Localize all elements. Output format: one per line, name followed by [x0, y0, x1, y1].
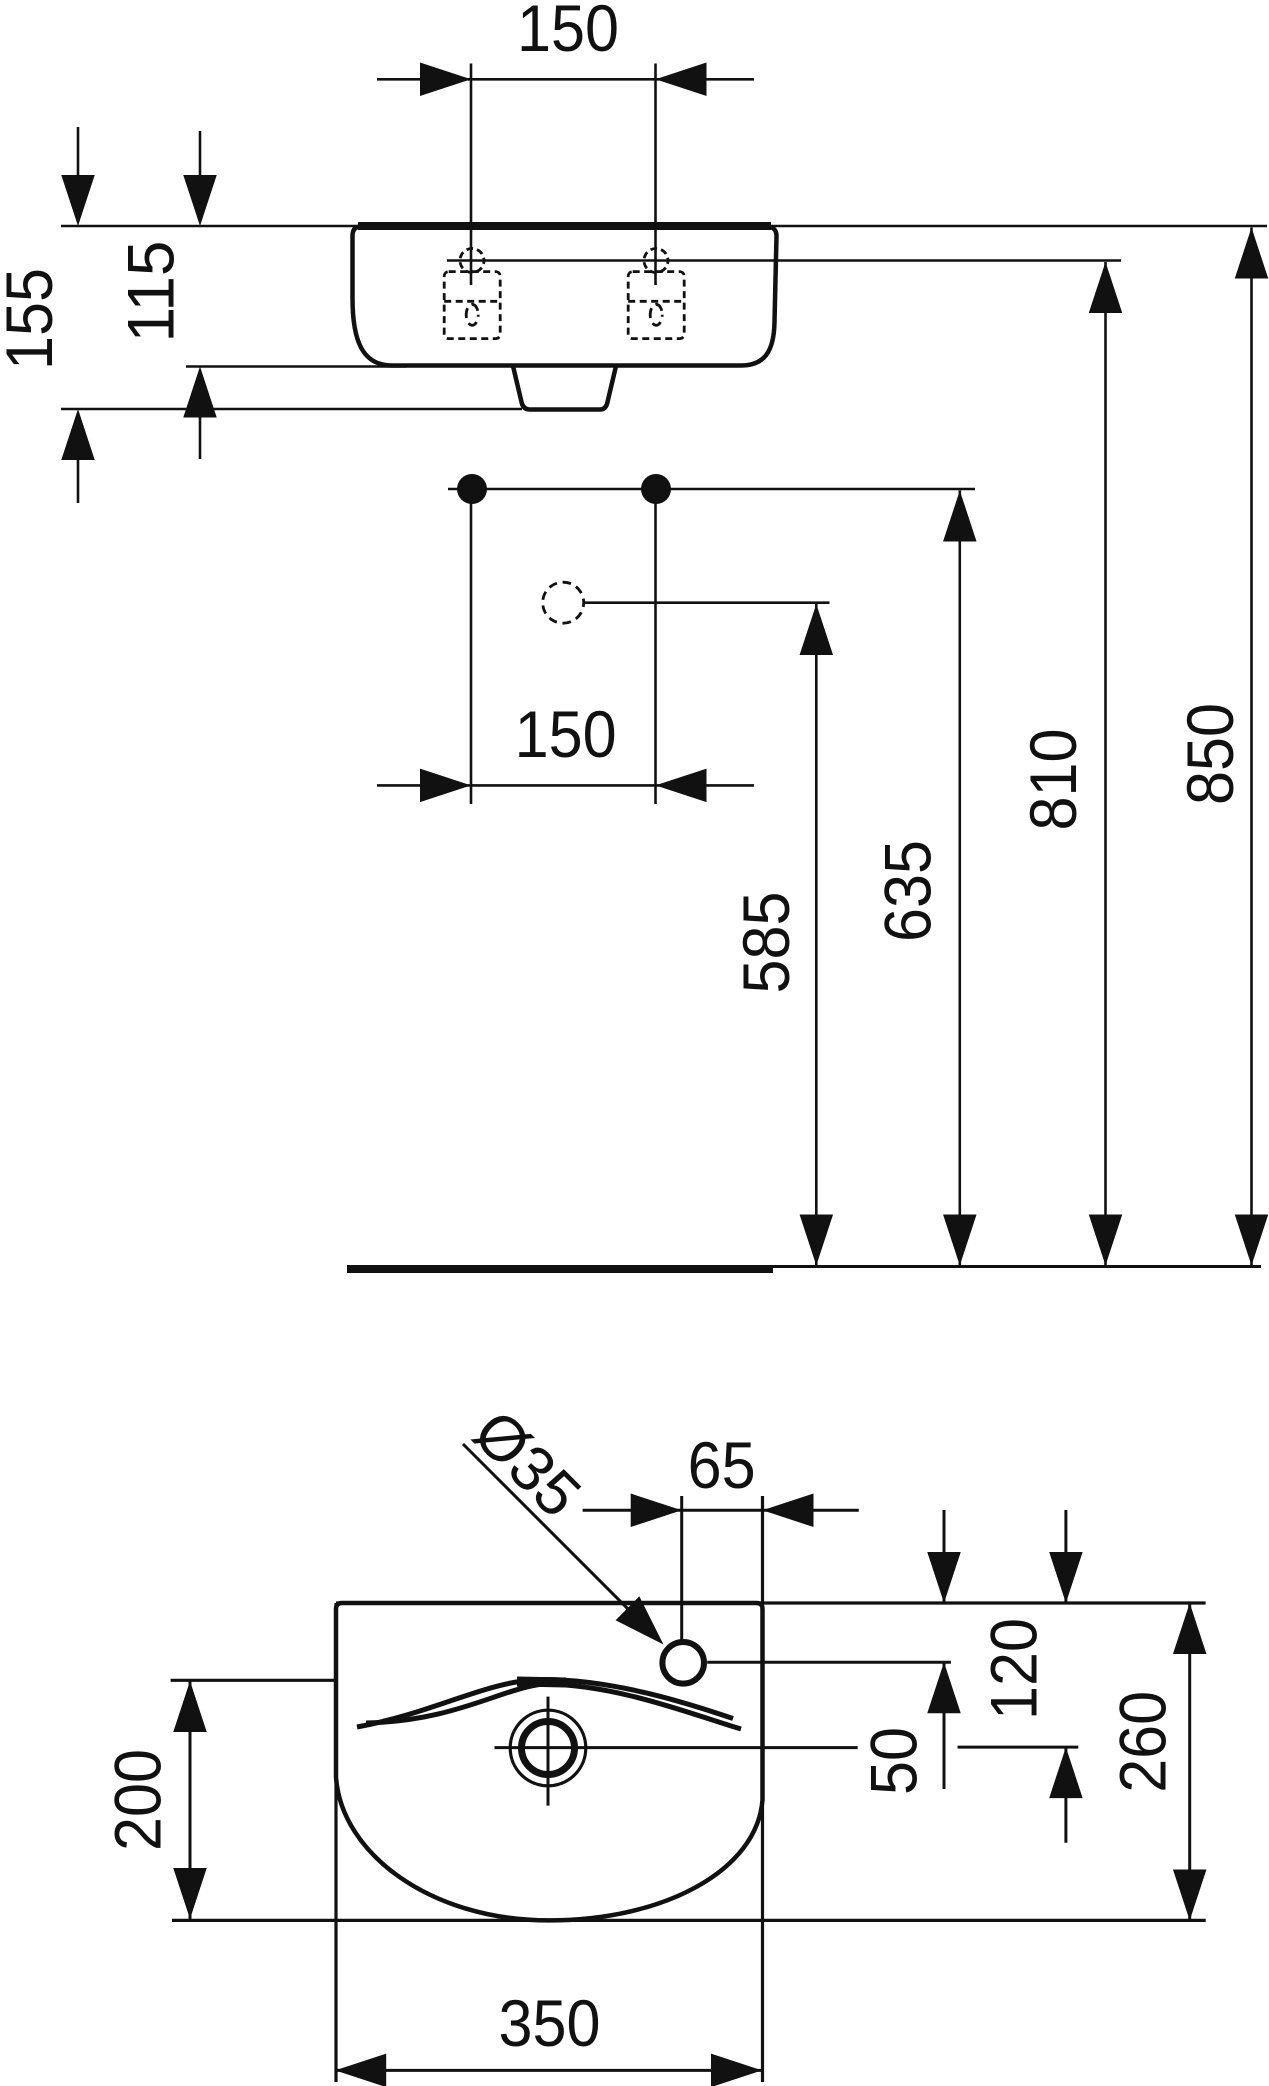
drain crosshair vertical — [547, 1697, 550, 1806]
svg-text:850: 850 — [1173, 703, 1247, 805]
leader line O35 — [463, 1444, 640, 1621]
dim 350 — [335, 2069, 762, 2072]
plan bottom reference line — [172, 1919, 1206, 1922]
dim 150 mid arrow right — [656, 769, 707, 803]
bowl rim wave upper — [357, 1680, 733, 1728]
svg-text:200: 200 — [101, 1749, 175, 1851]
plan left extension — [334, 1603, 337, 2082]
drain crosshair horizontal — [495, 1746, 858, 1749]
bolt hole circle left — [460, 249, 484, 273]
svg-text:115: 115 — [113, 241, 187, 343]
fixing dot extension left — [470, 489, 473, 804]
svg-text:120: 120 — [977, 1618, 1051, 1720]
leader arrowhead — [616, 1596, 664, 1644]
dim 200 — [189, 1681, 192, 1919]
fixing dot right — [641, 474, 671, 504]
plan right extension — [761, 1496, 764, 2082]
svg-text:810: 810 — [1016, 729, 1090, 831]
floor line thin — [347, 1265, 1261, 1268]
svg-text:65: 65 — [688, 1428, 756, 1502]
bolt hole circle right — [644, 249, 668, 273]
svg-text:150: 150 — [517, 0, 619, 65]
extension line 115 bottom — [186, 365, 406, 368]
tap hole extension horizontal — [707, 1661, 951, 1664]
dim 635 — [958, 491, 961, 1266]
dim 65 arrow left — [631, 1494, 682, 1528]
bolt centerline right — [654, 64, 657, 286]
dim 155 arrow bottom — [77, 455, 80, 503]
plan top reference line — [336, 1601, 1206, 1604]
dim 150 top arrow right — [656, 63, 707, 97]
plan basin outline — [336, 1603, 763, 1920]
drain dashed circle — [543, 582, 584, 623]
trap outlet — [513, 366, 616, 410]
bolt axis line — [447, 259, 1121, 262]
drain height line — [584, 601, 829, 604]
dim 155 arrow top — [77, 127, 80, 180]
extension line 155 bottom — [61, 408, 522, 411]
drain extension line — [958, 1746, 1079, 1749]
fixing bracket right — [628, 272, 684, 339]
dim 150 mid arrow left — [420, 769, 471, 803]
svg-text:260: 260 — [1106, 1691, 1180, 1793]
svg-text:350: 350 — [499, 1986, 601, 2060]
dim 260 — [1188, 1603, 1191, 1921]
fixing dots line — [448, 488, 975, 491]
fixing dot left — [457, 474, 487, 504]
basin top thick edge — [358, 222, 771, 230]
tap hole circle — [662, 1642, 704, 1684]
fixing bracket left — [444, 272, 500, 339]
dim 150 top line — [377, 78, 754, 81]
dim 50 — [943, 1510, 946, 1603]
svg-text:Ø35: Ø35 — [460, 1397, 594, 1531]
svg-text:635: 635 — [871, 840, 945, 942]
bowl top reference line (200) — [171, 1679, 336, 1682]
bolt centerline left — [470, 64, 473, 286]
svg-text:155: 155 — [0, 268, 66, 370]
svg-text:585: 585 — [729, 892, 803, 994]
svg-text:150: 150 — [515, 697, 617, 771]
fixing dot extension right — [654, 489, 657, 804]
bowl rim crest bar — [517, 1682, 566, 1683]
svg-text:50: 50 — [856, 1727, 930, 1795]
floor line thick — [347, 1266, 773, 1273]
dim 120 — [1064, 1510, 1067, 1603]
dim 65 arrow right — [763, 1494, 814, 1528]
dim 585 — [815, 604, 818, 1266]
basin side outline — [353, 227, 777, 366]
dim 65 line — [583, 1509, 859, 1512]
drain inner circle — [522, 1722, 575, 1775]
wall line — [61, 225, 1267, 228]
dim 150 top arrow left — [420, 63, 471, 97]
drain outer circle — [510, 1710, 586, 1786]
bowl rim wave lower — [366, 1684, 741, 1729]
dim 810 — [1104, 262, 1107, 1266]
dim 115 arrow bottom — [199, 413, 202, 459]
tap hole extension vertical — [680, 1496, 683, 1640]
dim 850 — [1250, 228, 1253, 1266]
dim 115 arrow top — [199, 131, 202, 180]
dim 150 mid line — [377, 784, 754, 787]
